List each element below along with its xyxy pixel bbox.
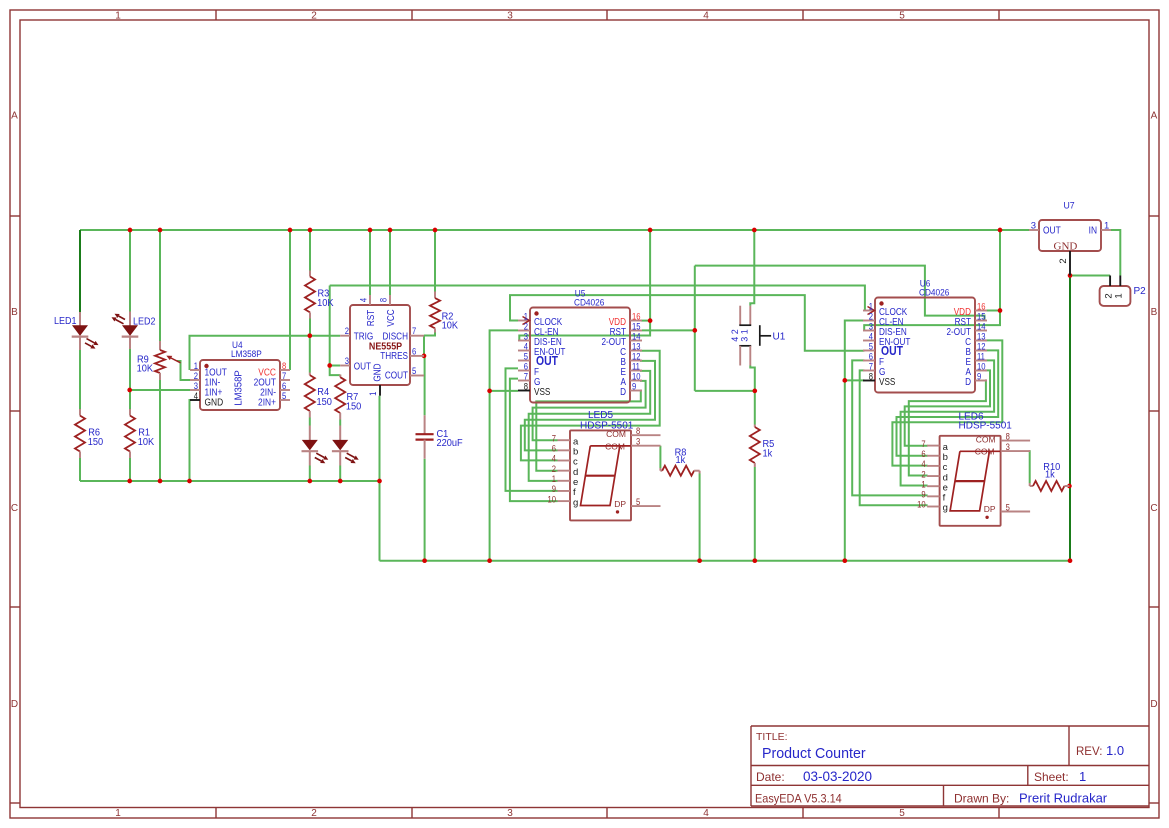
junction bbox=[127, 388, 132, 393]
svg-text:D: D bbox=[965, 375, 971, 387]
svg-text:2: 2 bbox=[1058, 258, 1069, 263]
U5 clock wedge bbox=[523, 317, 530, 325]
wire U5 G to LED5 g bbox=[510, 379, 558, 502]
wire R9 wiper to U4 1IN- bbox=[177, 361, 190, 380]
wire U7 IN to P2 pin1 bbox=[1111, 230, 1120, 276]
svg-text:A: A bbox=[1151, 111, 1158, 122]
svg-text:GND: GND bbox=[370, 363, 382, 381]
wire U6 VDD drop bbox=[999, 230, 1001, 311]
LED LED3 bbox=[309, 426, 311, 441]
junction bbox=[288, 228, 293, 233]
svg-text:P2: P2 bbox=[1134, 286, 1147, 297]
wire LED2 anode drop bbox=[129, 230, 131, 312]
svg-text:D: D bbox=[1150, 699, 1157, 710]
U6 pin stubs bbox=[863, 310, 875, 312]
wire RST node to U1/R5 bbox=[695, 390, 755, 392]
svg-text:7: 7 bbox=[412, 326, 417, 337]
svg-text:5: 5 bbox=[1006, 502, 1011, 513]
wire R2 bottom to DISCH bbox=[424, 333, 435, 336]
svg-text:Sheet:: Sheet: bbox=[1034, 770, 1069, 784]
wire U7 GND vertical (dark) bbox=[1069, 276, 1071, 561]
svg-text:2: 2 bbox=[921, 469, 926, 480]
wire U6 CL-EN to GND bbox=[845, 321, 865, 561]
junction bbox=[1068, 273, 1073, 278]
resistor R7 bbox=[339, 375, 341, 378]
display LED5 body bbox=[570, 430, 631, 520]
junction bbox=[338, 479, 343, 484]
svg-text:2IN+: 2IN+ bbox=[258, 397, 276, 409]
wire R9 top drop bbox=[159, 230, 161, 341]
resistor R3 bbox=[309, 271, 311, 277]
wire U1 top drop bbox=[750, 230, 754, 306]
title block frame bbox=[751, 726, 1149, 806]
svg-text:NE555P: NE555P bbox=[369, 341, 403, 353]
svg-text:2: 2 bbox=[552, 463, 557, 474]
wire U5 E to LED5 e bbox=[529, 371, 651, 481]
junction bbox=[307, 333, 312, 338]
svg-text:GND: GND bbox=[1054, 241, 1078, 253]
junction bbox=[327, 363, 332, 368]
svg-text:1: 1 bbox=[552, 473, 557, 484]
wire R3 bottom to TRIG net bbox=[309, 319, 311, 336]
U4 pin stubs bbox=[190, 369, 200, 371]
svg-text:10K: 10K bbox=[442, 320, 459, 332]
svg-text:150: 150 bbox=[88, 437, 104, 449]
counter U6 body bbox=[875, 298, 975, 393]
wire 555 GND vertical bbox=[379, 396, 381, 561]
svg-text:1: 1 bbox=[1114, 293, 1125, 298]
svg-text:1k: 1k bbox=[1045, 469, 1055, 481]
svg-text:C: C bbox=[1150, 503, 1157, 514]
wire U6 B to LED6 b bbox=[897, 350, 999, 455]
svg-text:3: 3 bbox=[1006, 441, 1011, 452]
wire R8 right to GND bbox=[699, 474, 701, 561]
wire GND bus left bbox=[80, 480, 380, 482]
wire U6 VDD stub bbox=[986, 310, 1000, 312]
junction bbox=[1067, 484, 1072, 489]
junction bbox=[752, 389, 757, 394]
wire 555 OUT stub bbox=[330, 365, 341, 367]
wire 555 OUT riser bbox=[329, 286, 331, 366]
wire U6 E to LED6 e bbox=[901, 360, 995, 485]
svg-text:9: 9 bbox=[977, 371, 982, 382]
svg-text:RST: RST bbox=[364, 310, 376, 327]
wire R5 top bbox=[754, 391, 756, 425]
svg-text:3: 3 bbox=[1031, 220, 1036, 231]
svg-text:3: 3 bbox=[636, 436, 641, 447]
svg-text:VSS: VSS bbox=[534, 385, 550, 397]
junction bbox=[368, 228, 373, 233]
wire U1 bottom jog bbox=[750, 366, 755, 391]
resistor R9 bbox=[159, 341, 161, 350]
junction bbox=[842, 558, 847, 563]
svg-text:3: 3 bbox=[345, 355, 350, 366]
svg-text:8: 8 bbox=[636, 425, 641, 436]
U4 pin1 marker dot bbox=[204, 364, 208, 368]
wire U5 B to LED5 b bbox=[525, 361, 655, 451]
wire VCC top bus bbox=[80, 229, 1029, 231]
svg-text:2: 2 bbox=[311, 808, 317, 819]
border tick marks bbox=[215, 10, 217, 20]
svg-text:7: 7 bbox=[552, 433, 557, 444]
wire LED1 anode drop (dark) bbox=[79, 230, 81, 312]
wire R6 bottom to GND bus bbox=[79, 458, 81, 481]
junction bbox=[422, 354, 427, 359]
wire LED4 to GND bus bbox=[339, 466, 341, 482]
wire 555 OUT jog to R7 bbox=[330, 366, 341, 376]
svg-text:Drawn By:: Drawn By: bbox=[954, 792, 1009, 806]
svg-text:1.0: 1.0 bbox=[1106, 743, 1124, 758]
svg-text:6: 6 bbox=[412, 346, 417, 357]
junction bbox=[127, 479, 132, 484]
junction bbox=[648, 318, 653, 323]
junction bbox=[158, 228, 163, 233]
regulator U7 body bbox=[1039, 220, 1101, 251]
pushbutton U1 bbox=[739, 306, 741, 326]
svg-text:1: 1 bbox=[921, 479, 926, 490]
U5 pin1 marker dot bbox=[534, 311, 538, 315]
svg-text:OUT: OUT bbox=[536, 354, 559, 368]
svg-text:B: B bbox=[11, 307, 18, 318]
wire U5 CL-EN to GND bbox=[490, 330, 518, 560]
wire U5 F to LED5 f bbox=[506, 368, 558, 491]
junction bbox=[697, 558, 702, 563]
resistor R5 bbox=[754, 425, 756, 428]
LED6 pin stubs bbox=[927, 445, 940, 447]
svg-text:EasyEDA V5.3.14: EasyEDA V5.3.14 bbox=[755, 793, 842, 805]
svg-text:D: D bbox=[11, 699, 18, 710]
wire R5 bottom to GND bbox=[754, 467, 756, 561]
svg-text:OUT: OUT bbox=[1043, 225, 1061, 237]
wire 555 VCC drop bbox=[389, 230, 391, 295]
resistor R4 bbox=[309, 373, 311, 376]
LED5 pin stubs bbox=[558, 439, 571, 441]
svg-text:g: g bbox=[573, 497, 578, 508]
wire LED1 cathode to R6 bbox=[79, 350, 81, 409]
svg-text:3 1: 3 1 bbox=[739, 329, 749, 342]
wire R2 top drop bbox=[434, 230, 436, 292]
timer NE555P body bbox=[350, 305, 410, 385]
svg-text:4: 4 bbox=[552, 453, 557, 464]
wire U5 C to LED5 c bbox=[521, 351, 660, 461]
wire 555 OUT to U6 CLOCK bbox=[330, 286, 865, 311]
svg-text:6: 6 bbox=[552, 443, 557, 454]
svg-text:8: 8 bbox=[524, 381, 529, 392]
junction bbox=[307, 479, 312, 484]
wire U6 C to LED6 c bbox=[892, 340, 1002, 465]
svg-text:REV:: REV: bbox=[1076, 746, 1102, 758]
svg-text:CD4026: CD4026 bbox=[919, 287, 949, 297]
svg-text:2: 2 bbox=[311, 11, 317, 22]
wire THRES to C1 bbox=[424, 356, 426, 415]
svg-text:3: 3 bbox=[507, 11, 513, 22]
svg-text:9: 9 bbox=[921, 489, 926, 500]
wire RST net to U6 RST bbox=[695, 266, 985, 321]
svg-text:OUT: OUT bbox=[354, 359, 371, 371]
wire LED5 COM to R8 bbox=[659, 446, 661, 468]
svg-text:TITLE:: TITLE: bbox=[756, 731, 788, 743]
wire U7 GND to P2 pin2 bbox=[1070, 275, 1110, 277]
resistor R6 bbox=[79, 409, 81, 416]
wire U5 VDD drop bbox=[649, 230, 651, 321]
svg-text:220uF: 220uF bbox=[437, 438, 463, 450]
LED LED1 bbox=[79, 312, 81, 326]
wire C1 bottom to GND bbox=[424, 459, 426, 561]
counter U5 body bbox=[530, 308, 630, 403]
svg-text:VSS: VSS bbox=[879, 375, 895, 387]
resistor R8 bbox=[659, 468, 661, 471]
junction bbox=[433, 228, 438, 233]
junction bbox=[1068, 558, 1073, 563]
svg-text:1: 1 bbox=[115, 11, 121, 22]
wire LED6 COM to R10 bbox=[1029, 450, 1031, 483]
svg-text:U1: U1 bbox=[773, 332, 786, 343]
wire GND bus bottom bbox=[380, 560, 1071, 562]
wire TRIG net to R4 top bbox=[309, 336, 311, 373]
wire U6 D to LED6 d bbox=[909, 380, 986, 475]
svg-text:D: D bbox=[620, 385, 626, 397]
svg-text:LED2: LED2 bbox=[133, 316, 155, 328]
svg-text:LED1: LED1 bbox=[54, 316, 76, 328]
wire U6 VDD to DIS-EN bbox=[864, 311, 1000, 331]
junction bbox=[388, 228, 393, 233]
wire U6 F to LED6 f bbox=[852, 360, 927, 495]
wire LED3 to GND bus bbox=[309, 466, 311, 482]
junction bbox=[648, 228, 653, 233]
svg-text:g: g bbox=[943, 503, 948, 514]
svg-text:1: 1 bbox=[1104, 220, 1109, 231]
U5 pin stubs bbox=[518, 320, 530, 322]
U7 pin stubs bbox=[1029, 229, 1039, 231]
wire U5 D to LED5 d bbox=[536, 391, 641, 471]
svg-text:LM358P: LM358P bbox=[231, 349, 262, 359]
U6 clock wedge bbox=[868, 307, 875, 315]
junction bbox=[487, 558, 492, 563]
svg-text:HDSP-5501: HDSP-5501 bbox=[580, 420, 634, 431]
svg-text:4: 4 bbox=[703, 808, 709, 819]
junction bbox=[752, 558, 757, 563]
svg-text:Date:: Date: bbox=[756, 770, 785, 784]
wire U4 GND drop bbox=[189, 400, 192, 481]
svg-text:03-03-2020: 03-03-2020 bbox=[803, 769, 872, 784]
svg-text:COM: COM bbox=[976, 435, 996, 445]
svg-text:DP: DP bbox=[984, 504, 996, 514]
svg-text:9: 9 bbox=[632, 381, 637, 392]
junction bbox=[998, 228, 1003, 233]
svg-text:Prerit Rudrakar: Prerit Rudrakar bbox=[1019, 791, 1108, 806]
wire R4 bottom to LED3 bbox=[309, 418, 311, 426]
svg-text:1k: 1k bbox=[676, 455, 686, 467]
svg-text:COUT: COUT bbox=[385, 369, 408, 381]
svg-text:10K: 10K bbox=[317, 298, 334, 310]
svg-text:VCC: VCC bbox=[384, 309, 396, 326]
svg-text:GND: GND bbox=[205, 397, 224, 409]
svg-text:5: 5 bbox=[636, 496, 641, 507]
wire U5 A to LED5 a bbox=[533, 381, 646, 440]
svg-text:1k: 1k bbox=[763, 448, 773, 460]
junction bbox=[752, 228, 757, 233]
wire U5 VSS stub bbox=[490, 390, 518, 392]
wire LED2 cathode to R1 bbox=[129, 349, 131, 409]
wire U6 G to LED6 g bbox=[860, 370, 928, 505]
wire 555 RST drop bbox=[369, 230, 371, 295]
svg-text:8: 8 bbox=[1006, 431, 1011, 442]
svg-text:4: 4 bbox=[358, 298, 369, 303]
svg-text:8: 8 bbox=[378, 298, 389, 303]
svg-text:1: 1 bbox=[1079, 769, 1086, 784]
svg-text:C: C bbox=[11, 503, 18, 514]
svg-text:4: 4 bbox=[194, 390, 199, 401]
LED5 digit outline bbox=[581, 446, 631, 506]
svg-text:U7: U7 bbox=[1064, 200, 1075, 210]
svg-text:10K: 10K bbox=[137, 363, 154, 375]
wire DISCH to THRES bbox=[423, 336, 425, 356]
junction bbox=[487, 389, 492, 394]
svg-text:OUT: OUT bbox=[881, 344, 904, 358]
svg-text:7: 7 bbox=[921, 438, 926, 449]
resistor R1 bbox=[129, 409, 131, 416]
svg-text:2: 2 bbox=[345, 326, 350, 337]
P2 pin stubs bbox=[1109, 276, 1111, 287]
svg-text:10K: 10K bbox=[138, 437, 155, 449]
svg-text:LM358P: LM358P bbox=[233, 370, 244, 405]
wire U6 VSS stub bbox=[845, 379, 865, 381]
svg-text:DP: DP bbox=[614, 499, 626, 509]
svg-text:Product Counter: Product Counter bbox=[762, 746, 866, 762]
wire R7 bottom to LED4 bbox=[339, 420, 341, 426]
wire U4 1OUT to 555 TRIG bbox=[190, 336, 341, 370]
resistor R10 bbox=[1029, 483, 1031, 486]
LED6 decimal point dot bbox=[985, 516, 988, 519]
wire RST net vertical bbox=[694, 266, 696, 391]
NE555P pin stubs bbox=[369, 295, 371, 305]
capacitor C1 bbox=[424, 415, 426, 434]
wire R9 bottom bbox=[159, 380, 161, 481]
wire U6 OUT to U5 CLOCK bbox=[510, 295, 864, 351]
svg-text:A: A bbox=[11, 111, 18, 122]
junction bbox=[422, 558, 427, 563]
svg-text:B: B bbox=[1151, 307, 1158, 318]
wire U6 A to LED6 a bbox=[905, 370, 990, 445]
wire LED2 node to U4 1IN+ bbox=[130, 389, 190, 391]
junction bbox=[842, 378, 847, 383]
R9 wiper arrow bbox=[169, 357, 181, 363]
svg-text:150: 150 bbox=[317, 396, 333, 408]
junction bbox=[308, 228, 313, 233]
junction bbox=[692, 328, 697, 333]
junction bbox=[998, 308, 1003, 313]
svg-text:10: 10 bbox=[917, 499, 926, 510]
wire U5 VDD stub bbox=[641, 320, 650, 322]
junction bbox=[187, 479, 192, 484]
svg-text:6: 6 bbox=[921, 448, 926, 459]
op-amp U4 body bbox=[200, 360, 280, 410]
LED5 decimal point dot bbox=[616, 510, 619, 513]
svg-text:1: 1 bbox=[367, 391, 378, 396]
junction bbox=[128, 228, 133, 233]
svg-text:4: 4 bbox=[921, 458, 926, 469]
svg-text:5: 5 bbox=[412, 365, 417, 376]
svg-text:4: 4 bbox=[703, 11, 709, 22]
svg-text:5: 5 bbox=[899, 808, 905, 819]
svg-text:150: 150 bbox=[346, 401, 362, 413]
svg-text:1: 1 bbox=[115, 808, 121, 819]
wire U4 VCC drop bbox=[289, 230, 291, 370]
svg-text:5: 5 bbox=[282, 390, 287, 401]
display LED6 body bbox=[940, 436, 1001, 526]
svg-text:IN: IN bbox=[1089, 225, 1098, 237]
wire R1 bottom bbox=[129, 458, 131, 481]
LED LED2 bbox=[129, 312, 131, 326]
svg-text:3: 3 bbox=[507, 808, 513, 819]
resistor R2 bbox=[434, 292, 436, 299]
U6 pin1 marker dot bbox=[879, 301, 883, 305]
svg-text:10: 10 bbox=[547, 494, 556, 505]
svg-text:HDSP-5501: HDSP-5501 bbox=[959, 421, 1013, 432]
svg-text:CD4026: CD4026 bbox=[574, 297, 604, 307]
LED6 digit outline bbox=[950, 451, 1000, 511]
wire U5 RST to node bbox=[642, 329, 695, 331]
wire U5 VDD to DIS-EN bbox=[519, 321, 650, 341]
junction bbox=[377, 479, 382, 484]
LED LED4 bbox=[339, 426, 341, 441]
svg-text:8: 8 bbox=[869, 371, 874, 382]
svg-text:5: 5 bbox=[899, 11, 905, 22]
connector P2 body bbox=[1100, 286, 1131, 306]
junction bbox=[158, 479, 163, 484]
wire R3 top drop bbox=[309, 230, 311, 271]
svg-text:9: 9 bbox=[552, 484, 557, 495]
